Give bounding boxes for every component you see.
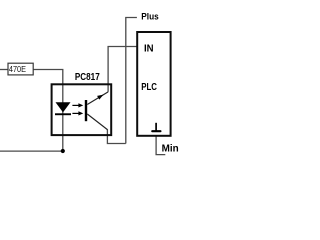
svg-text:PC817: PC817: [75, 71, 100, 82]
svg-text:Plus: Plus: [141, 11, 159, 22]
svg-text:IN: IN: [144, 43, 154, 54]
svg-text:PLC: PLC: [141, 81, 157, 92]
svg-text:Min: Min: [162, 144, 179, 155]
svg-text:470E: 470E: [9, 64, 26, 74]
